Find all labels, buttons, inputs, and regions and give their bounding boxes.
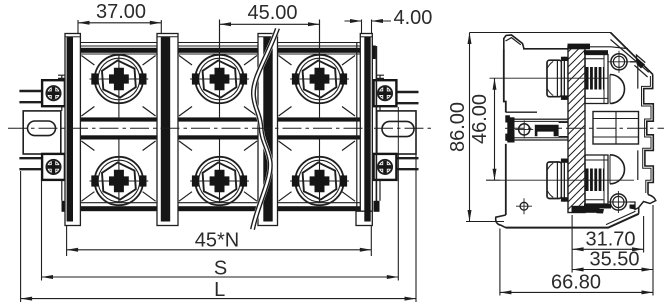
svg-text:45*N: 45*N <box>195 229 239 251</box>
small hole lower-left <box>516 198 532 214</box>
top-left tab outline <box>504 35 524 50</box>
din rail zigzag edge <box>642 74 654 194</box>
left upper mount screw <box>42 80 65 106</box>
svg-text:46.00: 46.00 <box>469 94 491 144</box>
top bolt washers <box>562 57 565 99</box>
cell chamfers pole3 top <box>279 56 356 117</box>
dim 37.00 <box>78 1 161 33</box>
top bolt centerline <box>490 77 609 79</box>
body top edge <box>523 48 571 50</box>
bottom wire funnel arc <box>610 155 625 184</box>
bottom thread section <box>586 169 605 192</box>
bottom bolt head <box>547 162 562 199</box>
dim 46.00 <box>469 78 500 180</box>
break line b <box>254 29 279 230</box>
top wire funnel arc <box>610 75 625 104</box>
rail clip screw bottom <box>607 191 629 213</box>
dim L <box>21 154 416 302</box>
hex screw pole3 top <box>292 55 347 103</box>
svg-text:66.80: 66.80 <box>551 272 601 294</box>
right slot crosshair <box>397 107 399 154</box>
rail inner edge <box>637 62 639 180</box>
plate bottom cap <box>572 206 600 213</box>
right rail tab lines <box>396 92 419 169</box>
hex screw pole2 top <box>192 55 247 103</box>
hex screw pole1 bottom <box>91 157 146 205</box>
separator wall 3 (at break) <box>258 34 278 226</box>
svg-text:S: S <box>214 257 227 279</box>
right upper mount screw <box>374 80 397 106</box>
dim 66.80 <box>500 229 653 296</box>
bottom bolt washers <box>562 159 565 201</box>
front center line <box>8 127 432 129</box>
hex screw pole1 top <box>91 55 146 103</box>
left slot hole <box>28 121 56 136</box>
right lower mount screw <box>374 154 397 180</box>
roof inner step <box>611 47 648 77</box>
cell chamfers pole2 bottom <box>179 141 257 201</box>
right slot hole <box>382 121 414 136</box>
right rail bracket plate <box>377 111 416 154</box>
rail strip right edge <box>377 75 385 201</box>
plate top cap <box>568 44 591 50</box>
top-left tab inner line <box>506 38 521 45</box>
cell chamfers pole3 bottom <box>279 141 356 201</box>
body right lower corner <box>638 208 640 214</box>
left lower mount screw <box>42 154 65 180</box>
body left wall <box>65 43 67 212</box>
dim 45*N <box>67 226 372 256</box>
roof top edge <box>588 46 611 48</box>
rail clip hook top <box>630 55 645 63</box>
cell chamfers pole1 top <box>81 56 155 117</box>
left bottom foot nub <box>62 201 68 212</box>
top thread cage <box>584 50 608 103</box>
side center line <box>505 127 664 129</box>
roof diagonal inner <box>611 40 649 73</box>
body top thick band <box>65 48 373 53</box>
bottom cell line <box>65 202 373 204</box>
middle thick band upper <box>65 117 373 121</box>
center cavity box <box>593 112 639 145</box>
left rail bracket plate <box>23 111 61 154</box>
cell chamfers pole2 top <box>179 56 257 117</box>
break gap erase <box>253 29 278 230</box>
top thread section <box>586 67 605 90</box>
screw crosshair pole3 bottom <box>290 140 349 203</box>
separator wall 4 (right edge) <box>356 34 376 226</box>
separator wall 1 (left edge) <box>65 34 80 226</box>
insulation plate hatch <box>568 47 585 213</box>
hex screw pole2 bottom <box>192 157 247 205</box>
body corner inner line <box>606 211 636 224</box>
clamp screw side <box>515 120 533 138</box>
cell top line <box>65 53 373 55</box>
body left edge <box>504 50 506 113</box>
dim 4.00 <box>345 7 433 33</box>
middle thick band lower <box>65 135 373 139</box>
left rail tab upper lines <box>19 91 42 169</box>
rail bottom hook <box>639 195 656 208</box>
svg-text:86.00: 86.00 <box>447 102 469 152</box>
separator wall 2 <box>157 34 178 226</box>
screw crosshair pole1 top <box>90 54 149 117</box>
hex screw pole3 bottom <box>292 157 347 205</box>
rail clip screw top <box>608 51 630 73</box>
screw crosshair pole2 top <box>190 20 249 118</box>
dim 45.00 <box>220 2 320 56</box>
body top edge lines <box>65 42 373 44</box>
clamp right lines <box>559 122 572 136</box>
cell chamfers pole1 bottom <box>81 141 155 201</box>
rail clip hook bottom <box>629 202 638 210</box>
right bottom foot nub <box>374 201 380 212</box>
svg-text:35.50: 35.50 <box>589 249 639 271</box>
svg-text:L: L <box>214 279 225 301</box>
dim 31.70 <box>572 215 644 273</box>
rail strip left edge <box>58 75 66 201</box>
svg-text:37.00: 37.00 <box>96 1 146 23</box>
svg-text:4.00: 4.00 <box>394 7 433 29</box>
bottom-left claw <box>496 215 506 228</box>
bottom bolt centerline <box>500 179 634 181</box>
svg-text:45.00: 45.00 <box>247 2 297 24</box>
dim 86.00 <box>447 33 611 222</box>
body bottom thick band <box>65 206 373 211</box>
screw crosshair pole1 bottom <box>90 140 149 203</box>
body bottom edge <box>506 214 639 228</box>
body right wall <box>371 43 373 212</box>
bottom thread cage <box>584 155 611 209</box>
dim S <box>42 154 399 281</box>
wire clamp block left <box>505 112 572 142</box>
clamp nut black <box>535 125 559 136</box>
dim 35.50 <box>572 205 653 296</box>
screw crosshair pole2 bottom <box>190 140 249 203</box>
screw crosshair pole3 top <box>290 20 349 118</box>
roof diagonal outer <box>611 33 653 75</box>
top bolt head <box>547 60 562 96</box>
body left edge lower <box>505 144 507 215</box>
corner claw wedge <box>597 209 605 214</box>
svg-text:31.70: 31.70 <box>585 228 635 250</box>
break line a <box>251 28 276 229</box>
